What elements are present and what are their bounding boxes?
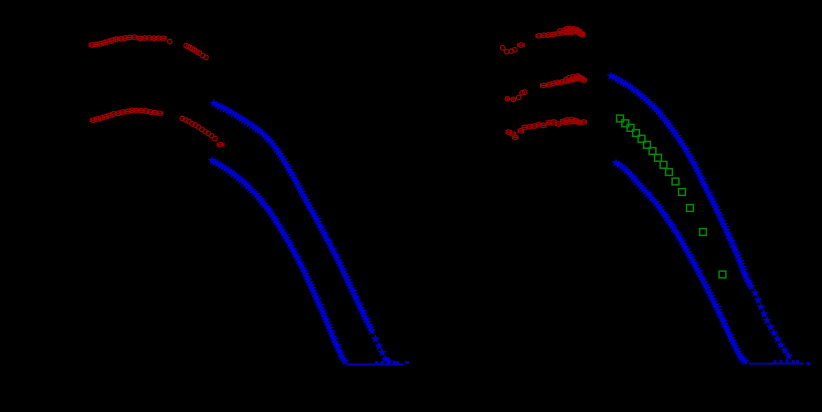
blue clipped points on right baseline	[774, 360, 811, 365]
blue baseline: left panel floor line	[347, 363, 404, 365]
red cluster: left panel upper faint-end points	[184, 43, 208, 59]
blue baseline: right panel floor line	[749, 363, 804, 365]
red data series: left panel upper luminosity function (circles with error bars)	[89, 35, 166, 47]
green data series: right panel open squares	[617, 115, 726, 278]
red cluster: right panel top-left group	[500, 43, 524, 54]
red cluster: right panel middle-left group	[505, 90, 527, 102]
blue sparse star tail: left panel upper band faint end	[371, 334, 394, 365]
blue model curve: right panel upper band of stars	[606, 71, 755, 290]
blue model curve: right panel lower band of stars	[611, 158, 749, 365]
blue model curve: left panel upper band of stars	[209, 99, 376, 335]
red data series: right panel upper chain with error bars	[536, 29, 585, 38]
red cluster: left panel lower faint-end points	[180, 116, 224, 147]
red data series: left panel lower luminosity function (circles with error bars)	[90, 108, 163, 122]
blue sparse star tail: right panel upper band faint end	[750, 288, 793, 360]
red isolated point left panel upper	[168, 39, 173, 44]
red data series: right panel bottom chain with error bars	[506, 117, 586, 139]
blue clipped points on left baseline	[375, 361, 409, 364]
red data series: right panel middle chain with error bars	[541, 76, 587, 88]
blue model curve: left panel lower band of stars	[207, 156, 349, 366]
